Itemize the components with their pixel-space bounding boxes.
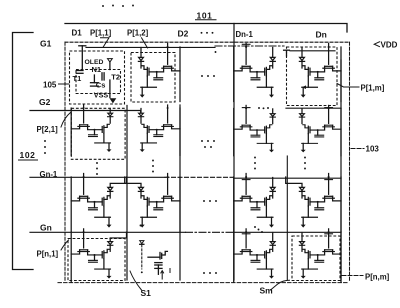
svg-text:103: 103: [366, 145, 380, 154]
svg-text:101: 101: [197, 10, 213, 20]
svg-text:Gn: Gn: [40, 222, 52, 232]
svg-text:S1: S1: [141, 288, 152, 298]
svg-text:Dn-1: Dn-1: [236, 30, 254, 39]
svg-text:Gn-1: Gn-1: [40, 170, 58, 179]
svg-text:Sm: Sm: [260, 286, 274, 296]
svg-text:D1: D1: [72, 29, 83, 38]
svg-text:G2: G2: [39, 97, 51, 107]
svg-text:VSS: VSS: [94, 91, 109, 100]
svg-text:P[1,1]: P[1,1]: [90, 29, 112, 38]
svg-text:105: 105: [43, 80, 57, 89]
svg-text:P[1,m]: P[1,m]: [361, 84, 385, 93]
svg-text:P[n,1]: P[n,1]: [37, 250, 59, 259]
svg-text:VDD: VDD: [381, 40, 398, 49]
svg-text:102: 102: [20, 150, 36, 160]
svg-text:T1: T1: [73, 74, 82, 83]
svg-text:T2: T2: [111, 73, 120, 82]
svg-text:Dn: Dn: [316, 29, 327, 39]
svg-text:D2: D2: [178, 29, 189, 39]
svg-text:Cs: Cs: [96, 81, 106, 90]
svg-text:P[1,2]: P[1,2]: [127, 29, 149, 38]
svg-text:G1: G1: [40, 39, 52, 49]
svg-text:P[2,1]: P[2,1]: [37, 125, 59, 134]
svg-text:P[n,m]: P[n,m]: [365, 273, 390, 282]
svg-text:N1: N1: [92, 65, 102, 74]
